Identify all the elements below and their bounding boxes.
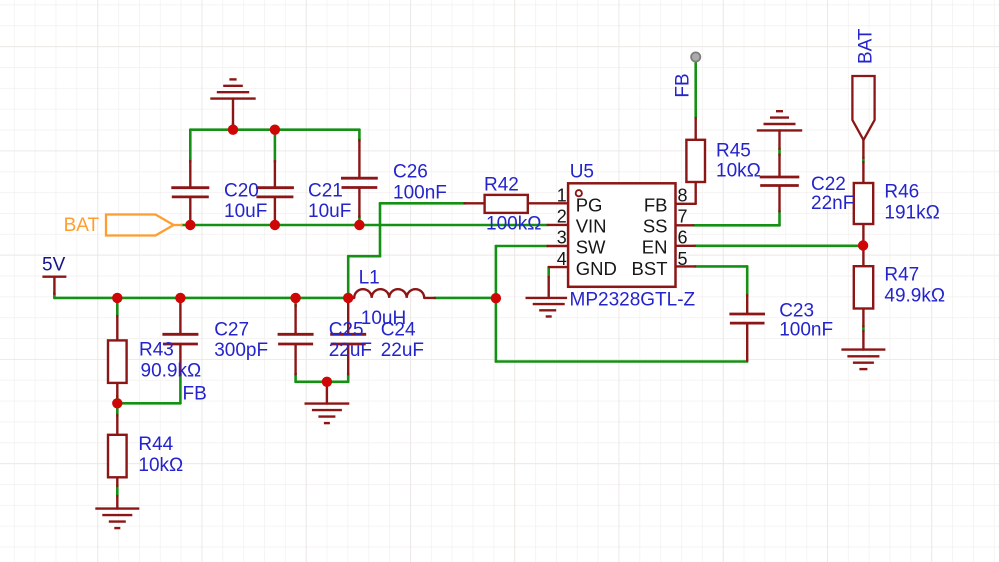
svg-text:EN: EN xyxy=(642,237,668,258)
wire C23 bottom return xyxy=(496,360,747,363)
wire 5V stem xyxy=(53,278,55,294)
svg-text:5: 5 xyxy=(678,249,688,269)
node junction 5V-L1 xyxy=(343,293,353,303)
svg-text:MP2328GTL-Z: MP2328GTL-Z xyxy=(570,290,696,311)
U5 pin1 indicator xyxy=(576,190,582,196)
resistor R43 xyxy=(108,340,127,383)
wire R43 top pin xyxy=(116,316,118,340)
node junction BAT-C20 xyxy=(185,220,195,230)
wire R44 bottom pin xyxy=(116,477,118,486)
svg-text:22nF: 22nF xyxy=(811,193,854,214)
power 5V bar xyxy=(42,276,66,278)
ground U5 pin4 xyxy=(526,298,568,317)
label C26 xyxy=(393,162,447,204)
svg-text:7: 7 xyxy=(678,207,688,227)
label R44 xyxy=(138,434,183,476)
wire BST pin xyxy=(695,265,747,268)
label C24 xyxy=(381,320,424,362)
label R45 xyxy=(716,141,761,182)
svg-text:C25: C25 xyxy=(329,320,364,341)
svg-text:C21: C21 xyxy=(308,181,343,202)
svg-text:1: 1 xyxy=(557,186,567,206)
wire C22 bottom pin xyxy=(778,187,780,212)
capacitor C25 xyxy=(278,334,314,344)
wire C22 gnd gap xyxy=(778,149,781,156)
wire R45 top pin xyxy=(695,118,697,140)
resistor R44 xyxy=(108,435,127,478)
wire U5 pin5 stub xyxy=(676,265,696,267)
wire BAT to VIN xyxy=(182,224,548,227)
wire C20 top drop xyxy=(189,130,192,162)
inductor L1 xyxy=(354,289,424,298)
svg-text:R44: R44 xyxy=(138,434,173,455)
port BAT left xyxy=(106,215,183,236)
label L1 xyxy=(359,268,407,330)
svg-text:BAT: BAT xyxy=(64,215,100,236)
node junction 5V-C25 xyxy=(290,293,300,303)
ground above C22 flipped xyxy=(757,111,802,130)
wire U5 pin4 stub xyxy=(549,266,568,268)
capacitor C27 xyxy=(162,334,198,344)
node junction 5V-R43 xyxy=(112,293,122,303)
resistor R46 xyxy=(854,183,873,224)
wire R44 gnd stem xyxy=(116,496,118,509)
wire C24 top pin xyxy=(347,298,349,333)
svg-text:6: 6 xyxy=(678,228,688,248)
capacitor C20 xyxy=(171,188,209,197)
wire C25 top pin xyxy=(294,305,296,333)
wire U5 pin8 stub xyxy=(676,203,696,205)
node junction EN divider xyxy=(858,240,868,250)
svg-text:8: 8 xyxy=(678,186,688,206)
wire R46 bottom pin xyxy=(862,224,864,246)
wire R42 right pin to U5 pin1 xyxy=(528,202,568,204)
capacitor C21 xyxy=(256,188,294,197)
svg-text:C23: C23 xyxy=(779,300,814,321)
wire GND pin stub xyxy=(547,267,550,277)
svg-text:100nF: 100nF xyxy=(393,182,447,203)
wire C25 top xyxy=(294,298,297,306)
port BAT right xyxy=(852,76,874,140)
wire R47 top pin xyxy=(862,246,864,267)
wire C24 bottom xyxy=(347,374,350,382)
IC U5 MP2328GTL-Z body xyxy=(568,183,675,286)
wire PG branch down xyxy=(379,203,382,256)
svg-text:R42: R42 xyxy=(484,175,519,196)
wire C22 bottom riser xyxy=(778,211,781,225)
svg-text:49.9kΩ: 49.9kΩ xyxy=(884,286,945,307)
wire L1 right to SW node xyxy=(435,297,496,300)
svg-text:BAT: BAT xyxy=(856,28,877,64)
wire C25 C24 bottom xyxy=(296,380,349,383)
wire R44 to gnd xyxy=(116,485,119,496)
svg-text:FB: FB xyxy=(673,73,694,97)
wire U5 pin3 stub xyxy=(548,245,569,247)
svg-text:C27: C27 xyxy=(214,320,249,341)
svg-text:10uF: 10uF xyxy=(308,201,351,222)
capacitor C22 xyxy=(760,177,800,186)
svg-text:GND: GND xyxy=(576,258,617,279)
svg-text:VIN: VIN xyxy=(576,216,607,237)
ground R44 xyxy=(95,509,139,528)
svg-text:191kΩ: 191kΩ xyxy=(884,203,939,224)
svg-text:300pF: 300pF xyxy=(214,340,268,361)
wire C22 top pin xyxy=(778,155,780,176)
label C22 xyxy=(811,174,854,214)
wire C27 bottom to FB node xyxy=(179,374,182,403)
node junction BAT-C26 xyxy=(354,220,364,230)
wire R46 top pin xyxy=(862,162,864,183)
wire EN to divider xyxy=(695,245,863,248)
wire C21 top drop xyxy=(274,130,277,162)
label C27 xyxy=(214,320,268,362)
wire 5V rail xyxy=(54,297,348,300)
wire R43 bottom pin xyxy=(116,383,118,397)
wire BAT right pin xyxy=(862,140,864,158)
wire PG to R42 xyxy=(380,202,466,205)
wire C26 bottom pin xyxy=(358,189,360,217)
wire R47 gnd stem xyxy=(862,331,864,350)
svg-text:3: 3 xyxy=(557,228,567,248)
capacitor C23 xyxy=(729,314,765,323)
wire C23 top pin xyxy=(746,295,748,313)
node junction BAT-C21 xyxy=(270,220,280,230)
wire L1 right lead xyxy=(424,297,435,299)
svg-text:R47: R47 xyxy=(884,265,919,286)
wire R44 top pin xyxy=(116,415,118,435)
svg-text:22uF: 22uF xyxy=(381,340,424,361)
wire U5 gnd stem xyxy=(548,277,550,298)
node junction 5V-C27 xyxy=(175,293,185,303)
label C23 xyxy=(779,300,833,340)
node junction SW xyxy=(491,293,501,303)
svg-text:C22: C22 xyxy=(811,174,846,195)
wire R45 bottom pin xyxy=(695,182,697,204)
wire L1 left lead xyxy=(348,297,354,299)
wire C26 top pin xyxy=(358,140,360,177)
svg-text:4: 4 xyxy=(557,249,567,269)
wire 5V power stem xyxy=(53,293,56,298)
svg-text:2: 2 xyxy=(557,207,567,227)
label C25 xyxy=(329,320,372,362)
wire BST drop to C23 xyxy=(746,266,749,296)
wire R47 to gnd xyxy=(862,326,865,332)
resistor R45 xyxy=(686,140,705,182)
wire C20 bottom pin xyxy=(189,199,191,226)
svg-text:10kΩ: 10kΩ xyxy=(716,161,761,182)
wire SW drop xyxy=(495,246,498,362)
svg-text:90.9kΩ: 90.9kΩ xyxy=(141,361,202,382)
label C20 xyxy=(224,181,267,222)
svg-text:SS: SS xyxy=(643,216,668,237)
svg-text:L1: L1 xyxy=(359,268,380,289)
wire BAT port to R46 xyxy=(862,158,865,163)
wire SW pin xyxy=(496,245,548,248)
wire C25 bottom pin xyxy=(294,345,296,374)
node grey dangling FB xyxy=(691,52,700,61)
svg-text:SW: SW xyxy=(576,237,606,258)
wire C21 top pin xyxy=(274,161,276,187)
ground top flipped xyxy=(210,79,255,98)
node junction topgnd xyxy=(228,125,238,135)
wire C20 top pin xyxy=(189,161,191,187)
capacitor C26 xyxy=(341,178,378,187)
wire top bus C20-C26 xyxy=(190,128,359,131)
ground C25 C24 xyxy=(305,404,350,424)
svg-text:100kΩ: 100kΩ xyxy=(486,214,541,235)
ground R47 xyxy=(841,350,885,370)
svg-text:FB: FB xyxy=(644,195,668,216)
resistor R42 xyxy=(485,195,528,213)
wire top gnd stem upper xyxy=(232,99,234,125)
svg-text:10uF: 10uF xyxy=(224,201,267,222)
wire FB node horizontal xyxy=(117,402,180,405)
svg-text:R46: R46 xyxy=(884,182,919,203)
wire R42 left pin xyxy=(465,202,485,204)
label R47 xyxy=(884,265,945,307)
capacitor C24 xyxy=(330,334,366,344)
svg-text:22uF: 22uF xyxy=(329,340,372,361)
svg-text:C26: C26 xyxy=(393,162,428,183)
wire U5 pin6 stub xyxy=(676,245,695,247)
svg-text:PG: PG xyxy=(576,195,603,216)
svg-text:10uH: 10uH xyxy=(361,308,406,329)
wire R47 bottom pin xyxy=(862,309,864,327)
label R43 xyxy=(139,340,201,382)
svg-text:R43: R43 xyxy=(139,340,174,361)
wire SS to C22 xyxy=(693,224,779,227)
svg-text:U5: U5 xyxy=(570,162,594,183)
svg-text:C20: C20 xyxy=(224,181,259,202)
wire C25 bottom xyxy=(294,374,297,382)
wire U5 pin7 stub xyxy=(676,224,694,226)
svg-text:5V: 5V xyxy=(42,255,66,276)
label R46 xyxy=(884,182,939,224)
wire C24 bottom pin xyxy=(347,345,349,374)
wire top gnd stem xyxy=(232,124,235,130)
wire C27 bottom pin xyxy=(179,345,181,375)
wire C27 top pin xyxy=(179,298,181,333)
svg-text:100nF: 100nF xyxy=(779,319,833,340)
node junction FB divider xyxy=(112,398,122,408)
wire FB dangling xyxy=(694,60,697,119)
wire C26 bottom to BAT net xyxy=(358,216,361,225)
wire C21 bottom pin xyxy=(274,199,276,226)
label C21 xyxy=(308,181,351,222)
node junction C25C24 gnd xyxy=(322,377,332,387)
resistor R47 xyxy=(854,266,873,308)
svg-text:BST: BST xyxy=(632,258,668,279)
wire PG branch horizontal xyxy=(348,255,380,258)
wire PG branch to 5V node xyxy=(347,256,350,298)
wire C22 gnd upper pin xyxy=(778,130,780,149)
node junction top-C21 xyxy=(270,125,280,135)
svg-text:FB: FB xyxy=(183,384,207,405)
wire U5 pin2 stub xyxy=(548,224,569,226)
wire R43 bottom to FB node xyxy=(116,396,119,416)
wire C26 top drop xyxy=(358,130,361,141)
wire R43 top xyxy=(116,298,119,317)
wire C23 bottom pin xyxy=(746,324,748,360)
svg-text:10kΩ: 10kΩ xyxy=(138,455,183,476)
wire C25-C24 gnd stem xyxy=(326,382,328,404)
svg-text:R45: R45 xyxy=(716,141,751,162)
label R42 xyxy=(484,175,541,235)
